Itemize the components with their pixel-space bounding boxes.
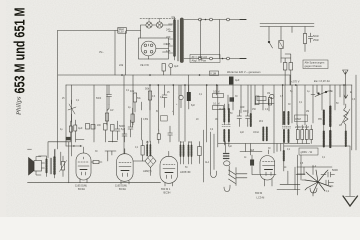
caps xyxy=(162,85,167,108)
selector contacts bottom xyxy=(199,57,230,60)
circle component xyxy=(270,94,274,98)
svg-text:LC3-M: LC3-M xyxy=(257,196,265,200)
svg-text:2M: 2M xyxy=(306,111,309,113)
svg-text:2µF: 2µF xyxy=(240,132,245,134)
svg-text:0,1 M: 0,1 M xyxy=(213,102,220,106)
cap cluster right xyxy=(115,120,133,142)
trimmer with arrow xyxy=(68,104,76,114)
svg-text:5000: 5000 xyxy=(332,168,338,172)
svg-text:4µF: 4µF xyxy=(78,126,83,130)
caps near V6 xyxy=(321,172,335,177)
resistor boxes right xyxy=(256,96,259,105)
svg-text:653 M und 651 M: 653 M und 651 M xyxy=(13,8,29,94)
svg-text:ZF2: ZF2 xyxy=(259,121,264,123)
rheostat right xyxy=(341,104,350,147)
svg-text:VE 3 W: VE 3 W xyxy=(140,63,149,67)
wire drop x255 xyxy=(254,85,256,105)
coil right of V5 xyxy=(283,151,285,161)
wire drop x188.5 xyxy=(188,75,190,93)
label AF 468kHz xyxy=(190,55,220,63)
wire drop x124 / x133 xyxy=(124,75,133,125)
svg-text:ZF = 468 kHz: ZF = 468 kHz xyxy=(192,55,208,59)
svg-text:50k: 50k xyxy=(145,87,150,91)
heater hook xyxy=(211,171,217,178)
wire drop x344 xyxy=(343,85,345,105)
wire x290 xyxy=(289,75,291,85)
speaker LS xyxy=(29,157,45,176)
svg-text:240: 240 xyxy=(166,28,171,32)
wires from rectifier xyxy=(149,44,169,59)
RC pair mains xyxy=(303,27,319,52)
wire drop x185 xyxy=(184,85,186,142)
label box Lsp xyxy=(118,28,127,34)
resistors mid section xyxy=(133,93,136,102)
wire drop x335 xyxy=(334,85,336,110)
wire lamp connections xyxy=(141,25,173,38)
wire drop x322 xyxy=(321,85,323,110)
wire drop x251 xyxy=(250,85,252,113)
wire drop x313 xyxy=(312,85,314,123)
svg-text:10k: 10k xyxy=(130,89,135,93)
junction dots rail B xyxy=(121,74,345,86)
svg-text:0,5M: 0,5M xyxy=(143,119,148,121)
resistor boxes bottom center-right xyxy=(295,125,313,144)
svg-text:Abgl. n. Plan: Abgl. n. Plan xyxy=(192,59,207,63)
boxes mid xyxy=(86,124,90,130)
svg-text:50nF: 50nF xyxy=(313,34,319,38)
svg-text:BC3H: BC3H xyxy=(78,187,85,191)
two boxes xyxy=(104,124,108,131)
bottom rail left xyxy=(28,182,128,184)
svg-text:6,3V: 6,3V xyxy=(118,30,124,34)
output transformer xyxy=(39,150,55,179)
wire drop x216.7 xyxy=(216,85,218,95)
coil cross-section dots xyxy=(224,154,230,159)
svg-text:145: 145 xyxy=(166,42,171,46)
dark electrolytic xyxy=(187,92,191,101)
ground bottom right xyxy=(343,146,358,206)
wire drop x356 xyxy=(355,75,357,150)
bottom rails right xyxy=(218,143,310,145)
wire drops x317 x340 xyxy=(317,85,340,97)
choke boxes mains xyxy=(283,63,287,71)
svg-text:gRFU - W: gRFU - W xyxy=(301,150,313,154)
volume pot xyxy=(60,156,67,177)
wire drop x158 xyxy=(157,85,159,130)
svg-text:125: 125 xyxy=(166,49,171,53)
wire drop x179 xyxy=(178,85,180,142)
title text Philips 653 M und 651 M xyxy=(13,8,29,117)
wire drop x233 xyxy=(232,85,234,110)
wire drop x351.8 xyxy=(351,85,353,150)
components above V1 xyxy=(69,126,72,132)
svg-text:4µF: 4µF xyxy=(235,78,240,82)
fuse F1 xyxy=(279,41,283,49)
band switch right xyxy=(311,91,332,97)
electrolytic 4uF xyxy=(169,64,173,68)
coils right of V3 xyxy=(181,142,202,165)
svg-text:Ew = 6,3V 4A: Ew = 6,3V 4A xyxy=(314,79,330,83)
svg-text:AL4: AL4 xyxy=(312,165,317,168)
selector rail bottom xyxy=(184,58,246,60)
rail A y75 xyxy=(58,74,290,76)
wire drop x297 xyxy=(296,85,298,125)
dark blob component xyxy=(66,137,71,140)
resistor left of V5 xyxy=(250,160,253,166)
small resistor right of V1 xyxy=(93,161,99,164)
svg-text:100: 100 xyxy=(240,105,245,109)
transformer core xyxy=(178,20,179,61)
wire drop x282.7 xyxy=(282,85,284,125)
mains drops xyxy=(269,27,292,41)
svg-text:+275 V: +275 V xyxy=(291,80,300,84)
wire x228 xyxy=(227,95,229,110)
svg-text:AM2(?): AM2(?) xyxy=(143,169,152,173)
wire top-left horizontal xyxy=(58,30,141,32)
selector rail top xyxy=(184,19,246,21)
wire x141.5 lower xyxy=(141,118,143,140)
svg-text:5000: 5000 xyxy=(119,124,125,128)
outer vertical line xyxy=(125,31,127,75)
label 50k box xyxy=(161,116,168,122)
label box right xyxy=(299,148,318,155)
wire drop x285 xyxy=(284,85,286,125)
svg-text:6E8: 6E8 xyxy=(250,150,255,152)
coil pair 258-264 xyxy=(262,128,264,142)
grid slants xyxy=(229,170,236,184)
svg-text:2000 50 1M: 2000 50 1M xyxy=(295,125,309,129)
IF transformer 3 xyxy=(282,112,291,142)
wire drop x248 xyxy=(247,85,249,113)
wire drop x150 xyxy=(149,85,151,142)
wire drop x241 xyxy=(240,85,242,113)
svg-text:5µF: 5µF xyxy=(228,146,233,148)
vertical x66 x71.5 xyxy=(66,85,72,156)
svg-text:AL4: AL4 xyxy=(205,161,210,164)
mains transformer T1 secondary xyxy=(180,20,184,62)
svg-text:Philips: Philips xyxy=(16,96,23,116)
rail B y85 xyxy=(66,84,352,86)
wires bottom center xyxy=(245,144,295,190)
wire drop x206.7 xyxy=(206,85,208,142)
label box Netz xyxy=(303,60,328,69)
selector verticals xyxy=(201,20,220,59)
wire drop x263 xyxy=(262,85,264,110)
vertical x107 xyxy=(106,85,108,125)
wire link y103.5 xyxy=(255,103,274,105)
svg-text:3V~: 3V~ xyxy=(99,50,104,54)
svg-text:BC3H: BC3H xyxy=(164,191,171,195)
svg-text:BC3H: BC3H xyxy=(119,187,126,191)
svg-text:ZF1: ZF1 xyxy=(219,109,224,111)
coil 248 xyxy=(250,114,252,126)
resistor box label on rail xyxy=(210,71,219,76)
resistor above rail xyxy=(162,64,165,72)
left margin strip xyxy=(0,0,6,217)
bottom rail lower xyxy=(128,182,161,184)
components above rail A xyxy=(162,64,240,102)
left vertical wires lower area xyxy=(123,125,125,154)
svg-text:22k: 22k xyxy=(119,63,124,67)
wire drop x274 xyxy=(273,85,275,153)
resistors with labels (horizontal) xyxy=(213,94,224,98)
svg-text:4µF: 4µF xyxy=(174,64,179,68)
svg-text:25nF: 25nF xyxy=(313,38,319,42)
arrow below rail xyxy=(344,85,348,98)
resistor small x158 xyxy=(157,134,160,140)
svg-text:1M: 1M xyxy=(267,93,270,95)
IF transformer left xyxy=(222,104,231,145)
wire x269 xyxy=(268,99,270,111)
antenna coils right xyxy=(324,107,331,148)
svg-text:5000: 5000 xyxy=(96,98,102,100)
dark cap between rails xyxy=(229,77,234,85)
resistor 106,115 xyxy=(105,113,108,121)
svg-text:Alle Spannungen: Alle Spannungen xyxy=(305,61,325,65)
svg-text:AF05=6F: AF05=6F xyxy=(180,170,191,174)
vertical from rail A x58 xyxy=(57,31,59,150)
resistor horizontal with label xyxy=(257,97,266,101)
svg-text:0,5M: 0,5M xyxy=(295,117,301,121)
rectifier enclosure box xyxy=(139,38,169,59)
wire drop x173 xyxy=(172,85,174,115)
svg-text:gegen Chassis: gegen Chassis xyxy=(305,64,323,68)
scattered micro labels xyxy=(60,90,356,193)
rectifier tube U1 (1561) xyxy=(141,41,156,56)
svg-text:Werte bei 220 V ~ gemessen: Werte bei 220 V ~ gemessen xyxy=(227,70,261,74)
svg-text:8µF: 8µF xyxy=(191,105,196,107)
mains transformer T1 primary xyxy=(166,17,175,60)
switch S1 xyxy=(268,41,270,43)
wire x141.5 upper xyxy=(141,102,143,110)
svg-text:0,5 M: 0,5 M xyxy=(213,90,220,94)
wire drop x292 xyxy=(291,85,293,123)
dial lamps L1 L2 xyxy=(140,18,176,28)
svg-text:650 M: 650 M xyxy=(255,191,262,195)
mains input rails xyxy=(260,24,314,27)
svg-text:0,1M: 0,1M xyxy=(210,72,216,76)
svg-text:UCH: UCH xyxy=(253,130,259,134)
wires above speaker xyxy=(48,142,70,183)
antenna symbol xyxy=(343,70,348,75)
wire vertical x115 xyxy=(114,31,116,76)
magic eye diamond xyxy=(133,151,156,176)
resistor x131 xyxy=(131,114,134,122)
vertical x94 xyxy=(93,85,95,142)
svg-text:1165 D(M): 1165 D(M) xyxy=(75,184,87,188)
wire drop x330 xyxy=(329,85,331,105)
boxed label ZF2 xyxy=(295,115,308,122)
cap at 103,95 xyxy=(107,85,112,105)
selector contacts top xyxy=(199,18,230,21)
svg-text:1165 D(M): 1165 D(M) xyxy=(115,184,127,188)
wire drop x305 xyxy=(304,85,306,125)
box top from rail B xyxy=(65,84,67,86)
svg-text:220: 220 xyxy=(166,35,171,39)
coil + resistor left of V3 xyxy=(141,140,150,161)
caps mid xyxy=(237,110,242,127)
svg-text:653 M 1: 653 M 1 xyxy=(161,187,171,191)
